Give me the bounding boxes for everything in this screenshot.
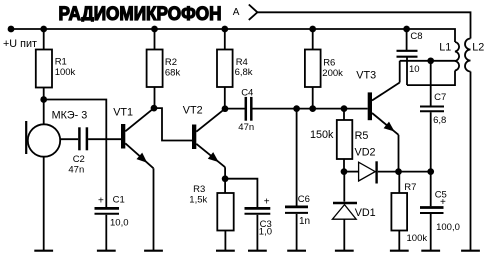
svg-text:47n: 47n xyxy=(68,165,84,176)
resistor R4 xyxy=(217,29,253,109)
+U пит supply terminal xyxy=(3,26,37,51)
wire: VT1 collector to VT2 base xyxy=(154,108,192,140)
capacitor C2 xyxy=(68,127,87,175)
resistor R6 xyxy=(305,29,343,109)
node: R5 bottom / VD1 / VD2 xyxy=(341,168,348,175)
svg-text:C4: C4 xyxy=(241,88,253,99)
svg-text:МКЭ- 3: МКЭ- 3 xyxy=(52,109,88,121)
svg-text:200k: 200k xyxy=(322,68,343,79)
antenna A terminal xyxy=(233,5,258,20)
node: junction R6 top xyxy=(309,26,316,33)
svg-text:150k: 150k xyxy=(310,129,334,141)
capacitor C3 electrolytic xyxy=(245,196,273,250)
svg-text:VD1: VD1 xyxy=(355,207,376,219)
svg-text:VT1: VT1 xyxy=(113,106,133,118)
ground (C1) xyxy=(97,250,116,252)
svg-text:L2: L2 xyxy=(472,41,484,53)
ground (mic) xyxy=(34,250,53,252)
svg-text:1n: 1n xyxy=(299,216,310,227)
wire: C2 to VT1 base (crosses C1 line) xyxy=(88,138,121,140)
svg-text:C6: C6 xyxy=(298,194,310,205)
svg-text:68k: 68k xyxy=(165,68,181,79)
svg-text:+: + xyxy=(440,197,446,208)
svg-text:R2: R2 xyxy=(165,57,177,68)
svg-text:1,0: 1,0 xyxy=(259,227,272,238)
svg-text:47n: 47n xyxy=(238,122,254,133)
svg-text:100k: 100k xyxy=(55,67,76,78)
svg-text:+: + xyxy=(98,196,104,207)
svg-text:10: 10 xyxy=(409,64,420,75)
inductor L1 xyxy=(439,41,459,70)
ground (VT1 emitter) xyxy=(144,250,163,252)
capacitor C5 electrolytic xyxy=(420,172,460,251)
node: R6 bottom xyxy=(309,105,316,112)
capacitor C1 electrolytic xyxy=(95,195,129,251)
capacitor C8 xyxy=(397,29,423,85)
wire: +U supply rail xyxy=(11,29,455,42)
node: R5 top xyxy=(341,105,348,112)
resistor R1 xyxy=(36,29,76,100)
ground (VD1) xyxy=(335,250,354,252)
microphone МКЭ-3 xyxy=(26,100,87,251)
svg-text:6,8: 6,8 xyxy=(433,115,446,126)
svg-text:C7: C7 xyxy=(434,92,446,103)
svg-text:L1: L1 xyxy=(439,41,451,53)
svg-text:1,5k: 1,5k xyxy=(189,194,207,205)
ground (L2) xyxy=(461,250,480,252)
node: junction C8 top xyxy=(403,26,410,33)
svg-text:+U пит: +U пит xyxy=(3,38,37,50)
wire: emitter node to C5/C7 column xyxy=(399,171,431,173)
node: C6 top xyxy=(293,105,300,112)
svg-text:A: A xyxy=(233,7,240,18)
node: junction R1 top xyxy=(40,26,47,33)
capacitor C6 xyxy=(285,109,310,251)
node: VT1 collector / R2 bottom xyxy=(151,105,158,112)
ground (R3) xyxy=(216,250,235,252)
capacitor C4 xyxy=(238,88,254,134)
svg-text:R7: R7 xyxy=(404,182,416,193)
node: junction R4 top xyxy=(221,26,228,33)
svg-text:R3: R3 xyxy=(193,184,205,195)
resistor R7 xyxy=(391,172,427,251)
wire: C8 bottom to L1 bottom xyxy=(407,71,455,86)
node: VT2 collector / R4 bottom xyxy=(222,105,229,112)
svg-text:R6: R6 xyxy=(323,57,335,68)
svg-text:6,8k: 6,8k xyxy=(235,67,253,78)
svg-text:VT3: VT3 xyxy=(356,69,376,81)
transistor VT1 xyxy=(113,106,154,250)
ground (C6) xyxy=(287,250,306,252)
transistor VT2 xyxy=(183,104,225,178)
svg-text:C1: C1 xyxy=(113,195,125,206)
wire: C4 to VT3 base line xyxy=(253,108,368,110)
svg-text:C8: C8 xyxy=(410,31,422,42)
svg-text:РАДИОМИКРОФОН: РАДИОМИКРОФОН xyxy=(59,3,222,25)
resistor R2 xyxy=(147,29,181,108)
svg-text:R1: R1 xyxy=(55,57,67,68)
node: VT3 emitter / R7 / VD2 xyxy=(395,168,402,175)
svg-text:C2: C2 xyxy=(73,154,85,165)
node: tap / C7 top xyxy=(427,57,434,64)
node: C7 bottom / C5 top xyxy=(427,168,434,175)
wire: VT2 emitter to C3 xyxy=(225,179,257,207)
transistor VT3 xyxy=(356,61,399,172)
wire: mic to C2 xyxy=(60,138,78,140)
ground (C3) xyxy=(248,250,267,252)
ground (C5) xyxy=(421,250,440,252)
capacitor C7 xyxy=(420,61,446,172)
svg-text:100k: 100k xyxy=(407,233,428,244)
zener diode VD1 xyxy=(332,172,375,251)
svg-text:+: + xyxy=(264,196,270,207)
diode VD2 xyxy=(344,146,399,183)
wire: R1 bottom to C1 column xyxy=(44,100,107,208)
node A: R1 bottom / mic junction xyxy=(40,96,47,103)
wire: VT3 collector tap line (node X) xyxy=(400,60,455,62)
resistor R3 xyxy=(189,179,233,251)
svg-text:R5: R5 xyxy=(355,130,369,142)
svg-text:10,0: 10,0 xyxy=(110,217,129,228)
svg-text:VT2: VT2 xyxy=(183,104,203,116)
wire: antenna line to L2 xyxy=(257,12,470,38)
resistor R5 xyxy=(310,109,368,172)
wire: R4 node to C4 xyxy=(225,108,245,110)
node: VT2 emitter junction xyxy=(222,175,229,182)
svg-text:100,0: 100,0 xyxy=(436,222,460,233)
svg-text:VD2: VD2 xyxy=(355,146,376,158)
ground (R7) xyxy=(390,250,409,252)
node: junction R2 top xyxy=(151,26,158,33)
inductor L2 xyxy=(465,39,484,251)
